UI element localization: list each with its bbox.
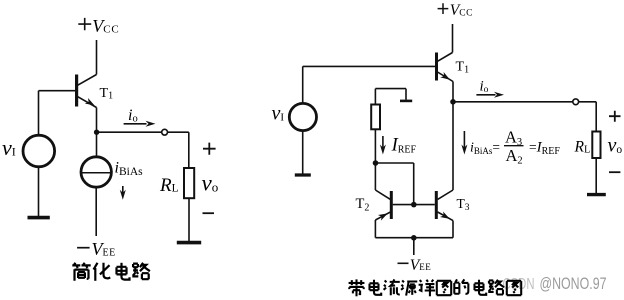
svg-text:io: io xyxy=(128,107,138,125)
svg-text:vI: vI xyxy=(272,103,285,125)
svg-text:T1: T1 xyxy=(100,86,114,102)
svg-text:A2: A2 xyxy=(506,146,523,167)
svg-text:RL: RL xyxy=(574,139,591,156)
svg-text:vI: vI xyxy=(2,135,16,160)
svg-text:=IREF: =IREF xyxy=(529,140,560,158)
svg-text:io: io xyxy=(480,79,489,96)
svg-text:iBiAs=: iBiAs= xyxy=(470,140,500,157)
svg-text:vo: vo xyxy=(202,171,219,196)
svg-text:A3: A3 xyxy=(505,128,522,149)
svg-text:VEE: VEE xyxy=(410,257,431,274)
svg-text:T2: T2 xyxy=(356,196,370,214)
svg-text:VEE: VEE xyxy=(92,239,116,259)
svg-text:@NONO.97: @NONO.97 xyxy=(540,274,607,293)
svg-text:iBiAs: iBiAs xyxy=(115,160,144,179)
svg-text:T3: T3 xyxy=(457,196,470,213)
svg-text:T1: T1 xyxy=(456,60,470,76)
svg-text:IREF: IREF xyxy=(391,136,417,156)
svg-text:RL: RL xyxy=(159,175,179,196)
svg-text:VCC: VCC xyxy=(92,16,119,36)
svg-text:VCC: VCC xyxy=(450,2,473,19)
svg-text:vo: vo xyxy=(608,135,623,157)
